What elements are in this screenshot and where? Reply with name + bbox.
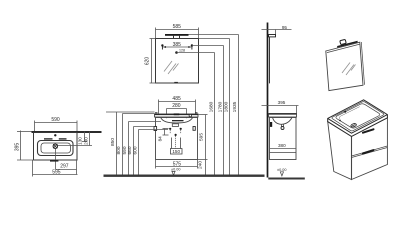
counter top face (diamond) — [328, 100, 388, 137]
dim 485 — [159, 100, 196, 114]
svg-text:485: 485 — [172, 96, 181, 102]
svg-text:1935: 1935 — [232, 101, 238, 112]
counter inner rim — [332, 102, 384, 131]
dim 380 — [270, 148, 297, 150]
drawer handle top — [363, 129, 374, 132]
dim 595 (plan) — [33, 160, 78, 177]
faucet hole 3d — [344, 111, 346, 113]
floor line under side view — [268, 178, 305, 180]
dim 280 — [167, 109, 187, 118]
light fixture profile — [269, 35, 276, 37]
bowl floor curve — [339, 107, 360, 120]
drain center dot — [175, 134, 177, 136]
south corner edge — [351, 136, 353, 179]
dim 800 — [122, 114, 124, 175]
mirror mounting dots — [161, 44, 163, 46]
drain flange (front view) — [172, 124, 178, 127]
overflow slot — [172, 120, 184, 121]
mirror edge thickness — [327, 44, 360, 53]
svg-text:280: 280 — [172, 103, 181, 109]
basin rim rounded rect — [38, 141, 74, 156]
svg-text:395: 395 — [14, 143, 20, 152]
svg-text:95: 95 — [282, 25, 288, 30]
countertop band — [155, 114, 199, 117]
svg-text:1800: 1800 — [223, 101, 229, 112]
dim 620 — [150, 39, 156, 84]
svg-text:240: 240 — [198, 161, 204, 169]
right fixing bracket — [193, 127, 195, 131]
drain leader line — [58, 145, 93, 147]
dim 297 — [56, 160, 77, 175]
svg-text:±0.00: ±0.00 — [277, 168, 286, 172]
dim 1800 line — [229, 39, 231, 175]
3d lamp head — [340, 39, 346, 44]
svg-text:595: 595 — [52, 169, 61, 175]
wall line — [267, 23, 269, 178]
dim 575 — [156, 160, 198, 169]
faucet base mark — [174, 113, 180, 115]
svg-text:1680: 1680 — [208, 101, 214, 112]
trap circle — [281, 127, 284, 130]
150 box — [171, 149, 183, 155]
svg-text:±0.00: ±0.00 — [171, 168, 180, 172]
socket dot with 128 label — [175, 51, 178, 54]
cabinet bottom panel line — [270, 152, 297, 154]
cabinet front face — [352, 118, 388, 180]
right 595/240 dim chain — [198, 115, 208, 175]
wall bracket — [270, 122, 272, 127]
bolt dots — [169, 128, 171, 130]
cabinet profile — [270, 118, 297, 160]
mirror rectangle — [156, 39, 199, 84]
dim 590 — [35, 121, 78, 133]
dim 1780 line — [223, 46, 225, 175]
mirror bottom clip — [174, 82, 178, 84]
svg-text:660: 660 — [127, 146, 133, 154]
dim 200 — [89, 132, 91, 146]
dim 130 — [84, 132, 86, 142]
svg-text:84: 84 — [158, 136, 163, 142]
3d mirror hatch — [342, 63, 356, 76]
basin bowl rounded rect — [41, 143, 71, 153]
svg-text:395: 395 — [278, 100, 286, 105]
dim 395 (side) — [262, 106, 299, 114]
svg-text:800: 800 — [116, 146, 122, 154]
basin bowl arc — [161, 117, 193, 123]
svg-text:380: 380 — [278, 143, 286, 148]
leader to 1800 — [199, 38, 230, 40]
svg-text:585: 585 — [173, 24, 182, 30]
svg-text:575: 575 — [173, 161, 182, 167]
floor line under front view — [104, 175, 265, 177]
svg-text:850: 850 — [110, 138, 116, 146]
countertop profile — [269, 114, 297, 118]
dim 395 (plan) — [17, 131, 34, 161]
deck dashes — [44, 138, 53, 139]
bowl outline — [336, 104, 380, 128]
drain — [53, 144, 57, 148]
washbasin outer rect (plan) — [34, 133, 78, 161]
3d light bar — [337, 41, 357, 48]
dim 585 line — [156, 28, 199, 39]
svg-text:620: 620 — [144, 57, 150, 66]
cabinet left side face — [328, 122, 352, 180]
svg-text:1780: 1780 — [217, 101, 223, 112]
cabinet body — [156, 118, 198, 160]
wall line (plan) — [17, 131, 32, 133]
leader to 1680 — [177, 52, 215, 54]
dim 600 — [138, 130, 140, 175]
svg-text:130: 130 — [78, 137, 83, 145]
dim 95 — [262, 30, 292, 35]
svg-text:150: 150 — [172, 149, 180, 154]
left fixing bracket — [154, 127, 157, 131]
drain stub — [281, 124, 283, 126]
light fixture bar — [165, 34, 189, 36]
svg-text:385: 385 — [173, 42, 182, 48]
drawer divider — [352, 146, 388, 156]
dim 385 — [164, 46, 191, 48]
dim 850 — [116, 112, 118, 175]
faucet hole — [54, 134, 56, 136]
leader to 1780 — [192, 45, 224, 47]
svg-text:128: 128 — [179, 49, 185, 53]
dim 660 — [133, 127, 135, 175]
center line down — [55, 149, 57, 170]
deck dot 3d — [339, 120, 341, 122]
bowl profile — [273, 117, 293, 124]
svg-text:595: 595 — [199, 133, 205, 141]
svg-text:600: 600 — [132, 146, 138, 154]
side tap hole — [189, 114, 191, 116]
dim 1935 line — [238, 35, 240, 175]
dim 1680 line — [214, 53, 216, 175]
mirror hatch lines — [164, 61, 179, 74]
water supply lines — [171, 138, 173, 149]
counter end caps — [155, 112, 158, 114]
mirror profile — [269, 37, 271, 84]
svg-text:200: 200 — [83, 137, 88, 145]
front tab — [50, 160, 58, 162]
drain oval 3d — [350, 123, 356, 128]
svg-text:297: 297 — [60, 164, 69, 170]
dim 590 — [128, 122, 130, 175]
svg-text:590: 590 — [51, 117, 60, 123]
dim 84 — [163, 129, 169, 136]
leader to 1935 — [189, 34, 239, 36]
counter front edges — [328, 115, 388, 134]
mirror panel — [326, 42, 363, 90]
drawer handle bottom — [363, 150, 374, 153]
